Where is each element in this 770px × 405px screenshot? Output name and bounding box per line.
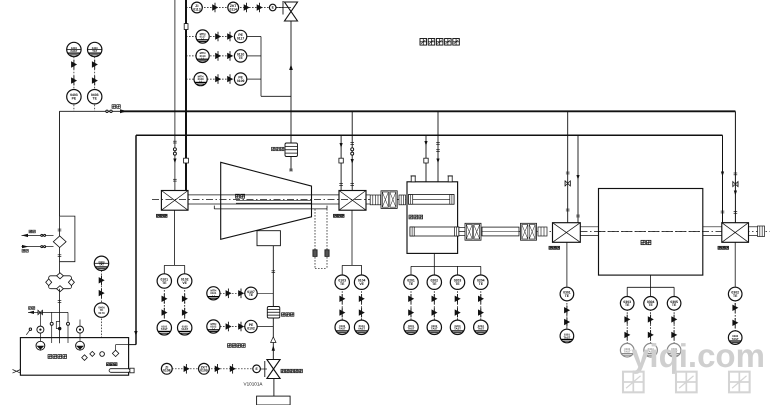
svg-text:0102: 0102 bbox=[247, 326, 255, 330]
shaft lines through casing bbox=[188, 194, 339, 196]
instrument TAST-0202 alarm bbox=[427, 320, 441, 334]
svg-text:TE: TE bbox=[432, 282, 437, 286]
signal triangle chain b bbox=[339, 308, 345, 318]
instrument PE-0403 bbox=[67, 90, 81, 104]
wire oil-supply header bbox=[60, 110, 124, 112]
tick motor-left drop lower bbox=[566, 209, 570, 211]
svg-text:TE: TE bbox=[238, 56, 243, 60]
instrument TAST-0303 alarm bbox=[620, 343, 634, 357]
svg-text:TE: TE bbox=[93, 97, 98, 101]
pump motor M2 bbox=[79, 320, 81, 343]
wire vibration probe a bbox=[314, 209, 316, 269]
wire motor left bearing supply drop bbox=[567, 111, 569, 222]
instrument TE-0103 bbox=[335, 275, 349, 289]
tick bearing B2 supply bbox=[350, 143, 354, 145]
instrument ZKT-0109 bbox=[199, 363, 210, 374]
inline box on trunk bbox=[184, 24, 188, 30]
svg-text:0108: 0108 bbox=[163, 369, 171, 373]
svg-text:0113: 0113 bbox=[193, 7, 200, 11]
coupling C5 bbox=[521, 223, 537, 240]
svg-text:TE: TE bbox=[733, 294, 738, 298]
wire chain G5 from bearing BL bbox=[566, 242, 568, 286]
instrument TE-0101 bbox=[157, 274, 171, 288]
signal triangle row6 a bbox=[226, 322, 232, 332]
gearbox input shaft bbox=[409, 195, 455, 205]
flow arrow trunk thin bbox=[173, 159, 176, 164]
wire return header right drop bbox=[722, 135, 724, 223]
shaft lines bearing B2 to coupling bbox=[366, 194, 370, 196]
coupling spacer C3 bbox=[399, 195, 406, 205]
svg-text:VE: VE bbox=[182, 281, 187, 285]
wire signal trunk thin bbox=[174, 0, 176, 191]
instrument TAST-0302 alarm bbox=[728, 331, 742, 345]
label lube oil tank bbox=[48, 355, 67, 359]
wire collector vertical bbox=[260, 37, 262, 97]
shaft centreline low-speed bbox=[459, 230, 770, 232]
signal triangle 0403a-2 bbox=[71, 76, 77, 86]
wire bracket G4 bbox=[627, 286, 674, 288]
signal triangle chain b bbox=[671, 330, 677, 340]
svg-text:TE: TE bbox=[625, 303, 630, 307]
flow arrow bearing B2 supply bbox=[351, 159, 354, 164]
tank return diffuser bbox=[112, 350, 118, 356]
svg-text:VAST: VAST bbox=[181, 328, 188, 331]
oil pump P2 bbox=[76, 341, 85, 350]
coupling spacer C1 bbox=[370, 195, 380, 205]
gearbox output shaft bbox=[410, 227, 459, 236]
oil cooler diamond bbox=[53, 236, 66, 248]
wire row4 signal bbox=[186, 78, 234, 80]
wire 0403 chain a bbox=[73, 57, 75, 112]
label cooling water out bbox=[29, 230, 35, 233]
signal triangle row1 b bbox=[244, 3, 250, 13]
svg-text:TAST: TAST bbox=[161, 328, 168, 331]
svg-text:TE: TE bbox=[249, 293, 254, 297]
node reducer pair on supply header bbox=[106, 110, 108, 112]
signal triangle chain a bbox=[478, 294, 484, 304]
label bearing B2 bbox=[334, 214, 345, 217]
label supply header bbox=[112, 105, 120, 109]
wire chain 0303-TE bbox=[626, 303, 628, 350]
svg-text:TE: TE bbox=[162, 281, 167, 285]
signal triangle chain b bbox=[162, 308, 168, 318]
shaft stub right bbox=[749, 226, 758, 228]
orifice box gearbox return bbox=[424, 158, 428, 163]
label silencer blow-off bbox=[272, 147, 284, 150]
instrument TE-0107 bbox=[245, 287, 257, 299]
shaft motor left bbox=[580, 226, 598, 228]
flow arrow blow-off up bbox=[289, 64, 293, 70]
damper actuator stem bbox=[264, 361, 266, 377]
gearbox vent a bbox=[411, 176, 415, 182]
svg-text:TE: TE bbox=[479, 282, 484, 286]
hollow arrow inlet bbox=[271, 337, 276, 343]
wire chain 0304-TE bbox=[650, 303, 652, 350]
spacer shaft bbox=[482, 227, 519, 236]
flange tick inlet pipe bbox=[272, 271, 276, 273]
label motor bbox=[641, 240, 651, 244]
wire chain G6 from bearing BR bbox=[734, 242, 736, 286]
blow-off valve V bbox=[285, 2, 298, 21]
converter E row1 bbox=[269, 4, 276, 11]
wire cooler to filter bbox=[59, 248, 61, 276]
wire supply header right drop bbox=[734, 111, 736, 222]
wire oil-return header bbox=[136, 134, 723, 136]
svg-text:TAT: TAT bbox=[92, 50, 97, 53]
svg-text:VAST: VAST bbox=[358, 328, 365, 331]
wire bearing B2 supply drop bbox=[351, 111, 353, 190]
instrument VE-0102 bbox=[178, 274, 192, 288]
signal triangle chain b bbox=[408, 308, 414, 318]
tick bearing B2 return bbox=[339, 184, 343, 186]
instrument TAT-0403 bbox=[88, 42, 102, 56]
instrument TAST-0204 alarm bbox=[474, 320, 488, 334]
converter E row7 bbox=[253, 365, 261, 373]
wire chain 0301-TE bbox=[566, 294, 568, 336]
hand valve drain branch bbox=[38, 310, 42, 314]
wire chain 0103-TE bbox=[341, 282, 343, 327]
wire vibration probe b bbox=[326, 209, 328, 269]
svg-text:TE: TE bbox=[409, 282, 414, 286]
instrument MTH-0117 switch bbox=[196, 30, 209, 43]
compressor casing bbox=[221, 162, 312, 239]
wire chain 0201-TE bbox=[410, 282, 412, 327]
lube oil tank bbox=[20, 338, 128, 376]
signal triangle row7 c bbox=[230, 364, 236, 374]
tank heater bbox=[109, 369, 130, 373]
wire row6 bbox=[220, 326, 245, 328]
svg-text:TE: TE bbox=[340, 282, 345, 286]
wire chain 0202-TE bbox=[433, 282, 435, 327]
wire 0404 chain bbox=[101, 271, 103, 338]
wire probe loop bbox=[315, 268, 327, 270]
svg-text:0109: 0109 bbox=[200, 369, 208, 373]
signal triangle row4 b bbox=[227, 74, 233, 84]
tick right drop lower bbox=[734, 212, 738, 214]
label level gauge bbox=[107, 363, 118, 366]
coupling spacer C7 bbox=[758, 226, 765, 237]
svg-text:0117: 0117 bbox=[237, 36, 244, 40]
instrument ZI-0108 bbox=[161, 363, 172, 374]
instrument TE-0302 bbox=[728, 287, 742, 301]
coupling C2 bbox=[381, 191, 397, 209]
signal triangle chain a bbox=[671, 315, 677, 325]
signal triangle row7 b bbox=[215, 364, 221, 374]
instrument TAST-0203 alarm bbox=[450, 320, 464, 334]
wire row6 to pipe bbox=[257, 326, 273, 328]
probe box b bbox=[325, 250, 329, 257]
instrument TE-0204 bbox=[474, 275, 488, 289]
wire bracket G3 bbox=[433, 253, 435, 266]
signal triangle row5 a bbox=[226, 289, 232, 299]
wire motor bottom drop bbox=[650, 275, 652, 287]
shaft centreline compressor bbox=[152, 198, 406, 200]
label gearbox bbox=[409, 215, 423, 219]
signal triangle chain b bbox=[564, 317, 570, 327]
motor centreline bbox=[599, 230, 703, 232]
wire cooling water inlet bbox=[41, 234, 54, 236]
compressor baseplate bbox=[214, 208, 327, 210]
instrument PE-0117 bbox=[234, 30, 246, 42]
signal triangle chain a bbox=[564, 305, 570, 315]
signal triangle row2 a bbox=[215, 32, 221, 42]
gearbox vent b bbox=[448, 176, 452, 182]
signal triangle row7 a bbox=[184, 364, 190, 374]
wire return into tank bbox=[129, 344, 136, 346]
signal triangle chain a bbox=[624, 315, 630, 325]
wire chain 0203-TE bbox=[457, 282, 459, 327]
svg-text:TAST: TAST bbox=[339, 328, 346, 331]
tank internal fitting b bbox=[90, 351, 95, 356]
signal triangle chain a bbox=[408, 294, 414, 304]
wire row5 to pipe bbox=[257, 292, 273, 294]
bearing box B1 bbox=[161, 191, 188, 211]
wire inlet pipe lower bbox=[273, 379, 275, 397]
flow arrow right drop bbox=[734, 191, 737, 196]
flow arrow cooling water in bbox=[22, 245, 29, 248]
instrument TE-0203 bbox=[450, 275, 464, 289]
wire collector to blow-off pipe bbox=[261, 95, 291, 97]
label damper actuator bbox=[281, 369, 302, 372]
signal triangle row1 c bbox=[257, 3, 263, 13]
tick gearbox supply 2 bbox=[436, 150, 440, 152]
tick bearing B2 supply lower bbox=[350, 184, 354, 186]
silencer blow-off bbox=[285, 143, 298, 157]
instrument PE-0102 bbox=[245, 320, 257, 332]
twin oil filter bbox=[49, 276, 72, 289]
svg-text:V10101A: V10101A bbox=[244, 382, 264, 387]
wire gearbox supply drop bbox=[437, 111, 439, 182]
node twin circles bearing B2 supply bbox=[351, 148, 354, 151]
signal triangle 0403a-1 bbox=[71, 60, 77, 70]
tick filter outlet bbox=[58, 301, 62, 303]
instrument TAST-0305 alarm bbox=[667, 343, 681, 357]
signal triangle chain b bbox=[624, 330, 630, 340]
tick trunk thin bbox=[173, 141, 177, 143]
signal triangle chain b bbox=[732, 318, 738, 328]
signal triangle chain b bbox=[455, 308, 461, 318]
instrument TE-0301 bbox=[560, 287, 574, 301]
flow arrow motor-left return bbox=[576, 175, 579, 180]
wire return header left drop to tank bbox=[135, 135, 137, 344]
node twin circles trunk thin bbox=[173, 148, 176, 151]
wire chain 0302-TE bbox=[734, 294, 736, 338]
wire main trunk thick bbox=[185, 0, 187, 191]
svg-text:TAST: TAST bbox=[408, 328, 415, 331]
signal triangle chain a bbox=[648, 315, 654, 325]
flow arrow return drop bbox=[134, 331, 137, 336]
label compressor 风机 bbox=[236, 194, 245, 198]
svg-text:TAST: TAST bbox=[477, 328, 484, 331]
svg-text:PdST: PdST bbox=[70, 50, 77, 53]
tick gearbox supply bbox=[436, 143, 440, 145]
valve on right drop bbox=[733, 182, 738, 187]
label damper 电动风门 bbox=[228, 344, 246, 348]
tank internal fitting a bbox=[82, 355, 88, 361]
signal triangle chain a bbox=[359, 294, 365, 304]
signal triangle chain b bbox=[432, 308, 438, 318]
label title 鼓风机系统 bbox=[420, 39, 459, 46]
instrument ZI-0113 bbox=[192, 2, 203, 13]
label cooling water in bbox=[22, 249, 28, 252]
signal triangle row3 b bbox=[227, 51, 233, 61]
svg-text:VE: VE bbox=[359, 282, 364, 286]
wire inlet pipe upper bbox=[272, 246, 274, 360]
wire bearing B2 return drop bbox=[340, 135, 342, 190]
wire bracket G1 bbox=[174, 210, 176, 265]
orifice box on trunk lower bbox=[184, 158, 189, 163]
motor bearing box BL bbox=[553, 223, 581, 243]
wire gearbox return drop bbox=[425, 135, 427, 182]
signal triangle chain a bbox=[162, 294, 168, 304]
label motor bearing BR bbox=[718, 246, 729, 249]
wire blow-off pipe bbox=[290, 21, 292, 171]
shaft lines gearbox to coupling bbox=[459, 227, 465, 229]
flow arrow drain branch bbox=[28, 311, 34, 314]
wire row1 signal bbox=[186, 7, 283, 9]
wire cooler bypass bbox=[60, 216, 75, 262]
wire chain 0104-VE bbox=[361, 282, 363, 327]
wire row2 signal bbox=[186, 36, 234, 38]
signal triangle row4 a bbox=[215, 74, 221, 84]
wire 0403 chain b bbox=[94, 57, 96, 112]
label silencer inlet bbox=[282, 313, 294, 316]
pump motor M1 bbox=[39, 312, 41, 342]
instrument MTH-0101 switch bbox=[207, 287, 220, 300]
instrument TAST-0301 alarm bbox=[560, 329, 574, 343]
vent tick blow-off end bbox=[289, 169, 293, 171]
tick cooler top bbox=[58, 229, 62, 231]
signal triangle chain b bbox=[648, 330, 654, 340]
wire cooling water return bbox=[41, 246, 54, 248]
signal triangle chain a bbox=[182, 294, 188, 304]
tick right drop bbox=[734, 173, 738, 175]
instrument VAST-0102 alarm bbox=[178, 321, 192, 335]
signal triangle row6 b bbox=[238, 322, 244, 332]
instrument TAST-0304 alarm bbox=[644, 343, 658, 357]
signal triangle 0403b-2 bbox=[92, 76, 98, 86]
instrument TE-0303 bbox=[620, 297, 634, 311]
valve motor-left drop bbox=[565, 181, 570, 186]
tank internal gauge bbox=[100, 352, 105, 357]
signal triangle row3 a bbox=[215, 51, 221, 61]
wire cooler section bbox=[59, 216, 61, 236]
flow arrow return right drop bbox=[721, 172, 724, 177]
signal triangle chain a bbox=[455, 294, 461, 304]
signal triangle row2 b bbox=[227, 32, 233, 42]
label motor bearing BL bbox=[549, 246, 560, 249]
flow arrow bearing B2 return bbox=[340, 143, 343, 148]
shaft motor right bbox=[703, 226, 722, 228]
flow arrow inlet up bbox=[272, 345, 275, 351]
signal triangle 0403b-1 bbox=[92, 60, 98, 70]
silencer inlet bbox=[267, 307, 280, 319]
tick trunk thin lower bbox=[173, 179, 177, 181]
flow arrow gearbox return bbox=[424, 141, 427, 146]
label drain branch bbox=[29, 307, 35, 310]
tank breather bbox=[26, 330, 30, 335]
flow arrow cooling water out bbox=[22, 234, 29, 237]
svg-text:TE: TE bbox=[672, 303, 677, 307]
gearbox 增速机 bbox=[407, 182, 458, 254]
signal triangle row5 b bbox=[238, 289, 244, 299]
wire row3 signal bbox=[186, 55, 234, 57]
svg-text:TE: TE bbox=[455, 282, 460, 286]
instrument TE-0110 bbox=[234, 50, 246, 62]
inlet damper valve V10101A bbox=[267, 360, 280, 379]
instrument TE-0403 bbox=[88, 90, 102, 104]
wire pump discharge manifold bbox=[39, 311, 68, 313]
compressor inlet volute bbox=[257, 231, 280, 246]
signal triangle chain b bbox=[478, 308, 484, 318]
instrument MTH-0102 switch bbox=[207, 320, 220, 333]
wire chain 0204-TE bbox=[480, 282, 482, 327]
wire row7 signal bbox=[172, 368, 252, 370]
svg-text:yiqi.com: yiqi.com bbox=[631, 337, 765, 374]
wire chain 0101-TE bbox=[163, 281, 165, 328]
motor bearing box BR bbox=[722, 223, 749, 243]
signal triangle row1 a bbox=[212, 3, 218, 13]
watermark 仪器网 bbox=[623, 372, 750, 393]
relief box on pump line bbox=[56, 322, 59, 329]
signal triangle chain a bbox=[432, 294, 438, 304]
instrument TE-0201 bbox=[404, 275, 418, 289]
svg-text:TAT: TAT bbox=[99, 264, 104, 267]
instrument VE-0104 bbox=[354, 275, 368, 289]
instrument TAST-0103 alarm bbox=[335, 320, 349, 334]
svg-text:0109: 0109 bbox=[237, 79, 245, 83]
wire chain 0102-VE bbox=[184, 281, 186, 328]
wire chain 0305-TE bbox=[673, 303, 675, 350]
wire pump riser b bbox=[67, 312, 69, 343]
flow arrow on supply header bbox=[120, 109, 127, 113]
instrument MTH-0109 switch bbox=[194, 73, 207, 86]
label bearing B1 bbox=[157, 214, 168, 217]
instrument TAST-0101 alarm bbox=[157, 321, 171, 335]
instrument MTH-0110 switch bbox=[196, 49, 209, 62]
signal triangle chain a bbox=[339, 294, 345, 304]
coupling spacer C6 bbox=[538, 227, 547, 236]
wire row4 to collector bbox=[247, 78, 261, 80]
signal triangle chain b bbox=[182, 308, 188, 318]
motor 电机 bbox=[599, 189, 703, 276]
instrument TE-0202 bbox=[427, 275, 441, 289]
svg-text:PE: PE bbox=[72, 97, 77, 101]
instrument VAST-0104 alarm bbox=[354, 320, 368, 334]
orifice box bearing B2 bbox=[339, 158, 343, 163]
tick motor-left return bbox=[576, 215, 580, 217]
svg-text:0114: 0114 bbox=[230, 7, 237, 11]
svg-text:0173: 0173 bbox=[98, 311, 105, 315]
oil pump P1 bbox=[36, 341, 45, 350]
tick return right drop bbox=[721, 211, 725, 213]
svg-text:TAST: TAST bbox=[454, 328, 461, 331]
bearing box B2 bbox=[339, 191, 366, 211]
instrument PdST-0403 bbox=[67, 42, 81, 56]
wire filter outlet bbox=[59, 289, 61, 344]
tick motor-left drop bbox=[566, 172, 570, 174]
instrument TAST-0201 alarm bbox=[404, 320, 418, 334]
signal triangle 0404-2 bbox=[99, 288, 105, 298]
wire motor left bearing return drop bbox=[577, 135, 579, 223]
probe box a bbox=[313, 250, 317, 257]
wire cooler feed bbox=[59, 111, 61, 216]
instrument TE-0304 bbox=[644, 297, 658, 311]
signal triangle chain b bbox=[359, 308, 365, 318]
signal triangle 0404-1 bbox=[99, 276, 105, 286]
actuator stem blow-off valve bbox=[282, 1, 284, 15]
flow arrow gearbox supply bbox=[436, 159, 439, 164]
